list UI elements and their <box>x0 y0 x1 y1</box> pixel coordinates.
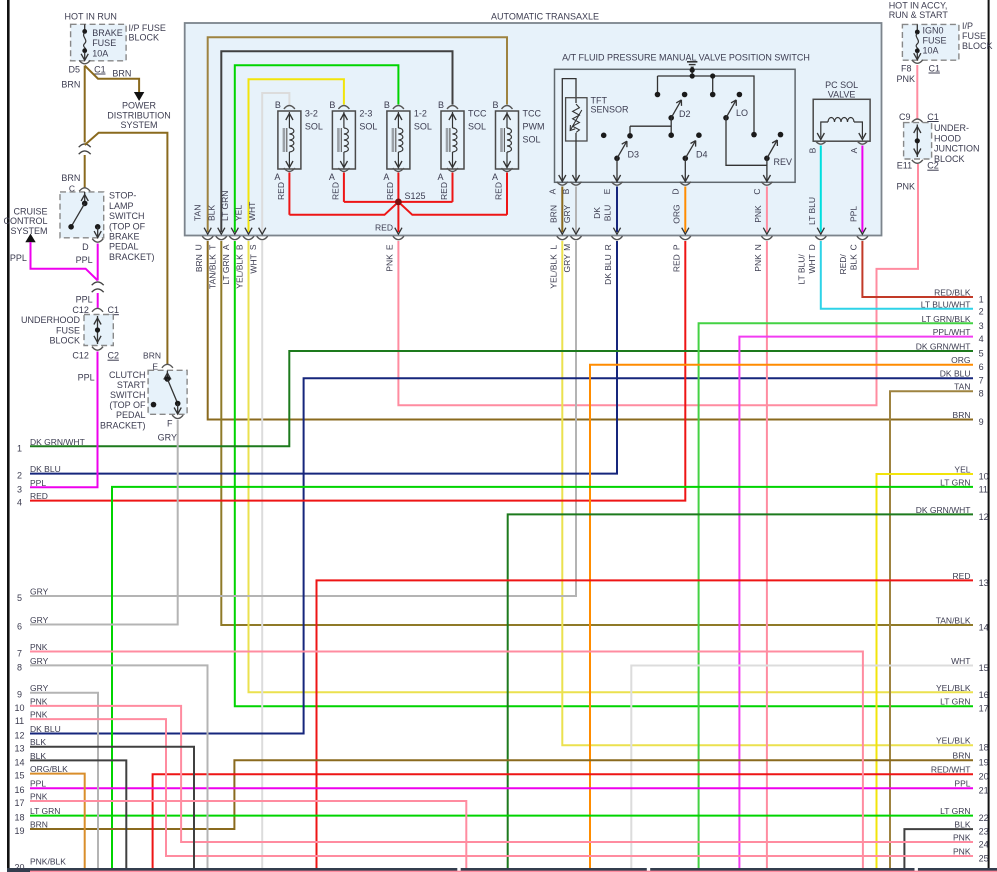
svg-text:M: M <box>562 244 572 251</box>
ground symbol <box>687 62 697 76</box>
svg-text:DK BLU: DK BLU <box>940 369 971 379</box>
svg-text:6: 6 <box>17 622 22 632</box>
svg-text:BLK: BLK <box>954 820 970 830</box>
svg-text:18: 18 <box>14 813 24 823</box>
svg-text:20: 20 <box>979 772 989 782</box>
svg-text:C: C <box>752 188 762 194</box>
wire YEL right terminal 10 to bottom edge <box>877 474 974 868</box>
wire PPL to underhood fuse block <box>76 293 98 308</box>
svg-text:DISTRIBUTION: DISTRIBUTION <box>107 110 171 120</box>
svg-text:RED/BLK: RED/BLK <box>934 288 971 298</box>
svg-text:WHT: WHT <box>247 202 257 221</box>
svg-text:DK BLU: DK BLU <box>603 254 613 285</box>
solenoid TCC PWM SOL <box>492 100 545 182</box>
svg-text:15: 15 <box>14 771 24 781</box>
svg-text:PNK: PNK <box>896 182 915 192</box>
svg-text:17: 17 <box>979 704 989 714</box>
svg-text:PNK: PNK <box>896 74 915 84</box>
wire PPL left terminal 16 to right terminal 21 <box>30 787 973 789</box>
svg-text:SWITCH: SWITCH <box>110 390 146 400</box>
svg-text:7: 7 <box>17 649 22 659</box>
svg-text:BRN: BRN <box>61 173 80 183</box>
wire BLK left terminal 14 to bottom edge <box>30 760 126 868</box>
svg-text:A: A <box>329 172 335 182</box>
wire GRY left terminal 8 to bottom edge <box>30 665 208 868</box>
svg-text:CLUTCH: CLUTCH <box>109 370 146 380</box>
label UNDERHOOD FUSE BLOCK <box>21 315 81 346</box>
svg-text:16: 16 <box>979 690 989 700</box>
svg-text:BLK: BLK <box>30 737 46 747</box>
svg-text:14: 14 <box>14 757 24 767</box>
svg-text:TAN/BLK: TAN/BLK <box>936 616 971 626</box>
svg-text:9: 9 <box>979 417 984 427</box>
svg-text:10: 10 <box>14 703 24 713</box>
svg-text:PNK/BLK: PNK/BLK <box>30 857 66 867</box>
svg-text:RED: RED <box>30 491 48 501</box>
left terminal number labels <box>14 437 84 836</box>
wire RED/WHT right terminal 20 to bottom edge <box>153 774 973 868</box>
svg-text:A: A <box>849 147 859 153</box>
svg-text:C1: C1 <box>929 63 941 73</box>
svg-text:PNK: PNK <box>30 642 48 652</box>
svg-text:PEDAL: PEDAL <box>109 242 139 252</box>
wire BRN from brake fuse, split to power distribution <box>85 66 145 101</box>
svg-text:GRY: GRY <box>30 683 49 693</box>
svg-text:BRN: BRN <box>143 351 161 361</box>
svg-text:YEL/BLK: YEL/BLK <box>235 254 245 289</box>
wire WHT solenoid S to bottom edge <box>261 241 263 868</box>
connector C9/C1 above junction block <box>899 112 939 123</box>
svg-text:D4: D4 <box>696 150 708 160</box>
switch CLUTCH START SWITCH <box>143 351 187 415</box>
wire GRY left terminal 9 to bottom edge <box>30 693 98 868</box>
svg-text:13: 13 <box>14 744 24 754</box>
svg-text:B: B <box>235 244 245 250</box>
svg-text:REV: REV <box>774 157 793 167</box>
svg-text:YEL: YEL <box>234 205 244 221</box>
label HOT IN ACCY, RUN & START <box>889 1 949 21</box>
svg-text:5: 5 <box>17 593 22 603</box>
wire PNK/BLK left terminal 20 at page bottom <box>30 870 997 872</box>
svg-text:B: B <box>561 188 571 194</box>
svg-text:DK GRN/WHT: DK GRN/WHT <box>916 342 971 352</box>
connector F under clutch switch <box>158 415 184 443</box>
svg-text:DK GRN/WHT: DK GRN/WHT <box>916 505 971 515</box>
wire BLK left terminal 13 to bottom edge <box>30 747 194 868</box>
svg-text:11: 11 <box>979 484 988 494</box>
switch STOP-LAMP SWITCH <box>60 192 104 238</box>
svg-text:C1: C1 <box>108 305 120 315</box>
wire RED/BLK switch C to right terminal 1 <box>862 241 973 297</box>
wire LT GRN right terminal 11 to bottom edge <box>112 487 973 868</box>
svg-text:D: D <box>671 188 681 194</box>
wire PNK left terminal 11 to right terminal 25 <box>30 719 973 856</box>
svg-text:BLK: BLK <box>30 751 46 761</box>
left terminal 20 PNK/BLK label <box>14 857 66 872</box>
connector C12/C1 above underhood fuse block <box>72 305 119 315</box>
svg-text:TCC: TCC <box>523 109 542 119</box>
svg-text:BLU: BLU <box>603 205 613 222</box>
wire BRN solenoid U to right terminal 9 <box>208 241 973 420</box>
wire RED solenoid returns to splice S125 <box>276 173 507 235</box>
svg-text:A: A <box>437 172 443 182</box>
label CLUTCH START SWITCH (TOP OF PEDAL BRACKET) <box>100 370 146 431</box>
svg-text:(TOP OF: (TOP OF <box>109 221 146 231</box>
svg-text:1: 1 <box>979 295 984 305</box>
svg-text:YEL/BLK: YEL/BLK <box>549 254 559 289</box>
svg-text:GRY: GRY <box>158 433 177 443</box>
svg-text:SOL: SOL <box>468 122 486 132</box>
svg-text:4: 4 <box>979 334 984 344</box>
svg-text:PC SOL: PC SOL <box>825 80 858 90</box>
right terminal number labels <box>916 288 989 864</box>
svg-text:13: 13 <box>979 578 989 588</box>
bottom page connector bar <box>7 868 997 872</box>
wire LT GRN solenoid A to right terminal 17 <box>235 241 973 706</box>
splice S125 <box>395 191 426 205</box>
svg-text:CRUISE: CRUISE <box>13 206 47 216</box>
switch contact D4 <box>683 132 708 161</box>
wire YEL/BLK solenoid B to right terminal 16 <box>249 241 974 692</box>
svg-text:LT GRN: LT GRN <box>221 254 231 284</box>
svg-text:T: T <box>207 245 217 250</box>
svg-text:17: 17 <box>14 798 24 808</box>
svg-text:15: 15 <box>979 663 989 673</box>
svg-text:PPL: PPL <box>30 478 46 488</box>
svg-text:BRACKET): BRACKET) <box>109 252 155 262</box>
svg-text:PPL: PPL <box>954 779 970 789</box>
wire GRY switch M to left terminal 5 <box>30 241 576 596</box>
wire ORG/BLK left terminal 15 to bottom edge <box>30 774 85 868</box>
connector D under stop-lamp switch <box>76 239 104 265</box>
svg-text:TAN/BLK: TAN/BLK <box>208 254 218 289</box>
wire PNK ignition feed from solenoid E to underhood junction block <box>398 164 918 405</box>
svg-text:UNDER-: UNDER- <box>934 123 969 133</box>
svg-text:CONTROL: CONTROL <box>3 216 47 226</box>
svg-text:L: L <box>548 245 558 250</box>
svg-text:1: 1 <box>17 443 22 453</box>
wire BRN left terminal 19 to right terminal 19 <box>30 760 973 829</box>
svg-text:LAMP: LAMP <box>109 201 134 211</box>
wire WHT feed to solenoid <box>262 93 289 232</box>
svg-text:D3: D3 <box>628 150 640 160</box>
svg-text:ORG/BLK: ORG/BLK <box>30 764 68 774</box>
component box: A/T FLUID PRESSURE MANUAL VALVE POSITION SWITCH <box>555 69 796 182</box>
solenoid 3-2 SOL <box>274 100 323 182</box>
svg-text:PPL: PPL <box>76 255 93 265</box>
in-line connector on BRN <box>79 144 91 154</box>
svg-text:SOL: SOL <box>359 122 377 132</box>
svg-text:PNK: PNK <box>30 710 48 720</box>
wire TAN/BLK solenoid T to right terminal 14 <box>221 241 973 625</box>
svg-text:ORG: ORG <box>951 355 970 365</box>
svg-text:FUSE: FUSE <box>56 325 80 335</box>
svg-text:BLOCK: BLOCK <box>49 336 80 346</box>
svg-text:LT GRN: LT GRN <box>30 806 60 816</box>
svg-text:3: 3 <box>979 321 984 331</box>
wire BLK feed to solenoid <box>221 51 452 232</box>
svg-text:25: 25 <box>979 854 989 864</box>
component PC SOL VALVE <box>807 80 870 153</box>
svg-text:B: B <box>329 100 335 110</box>
svg-text:B: B <box>275 100 281 110</box>
connector C12/C2 below underhood fuse block <box>72 347 119 361</box>
wire TAN feed to solenoid <box>208 37 507 232</box>
svg-text:PEDAL: PEDAL <box>116 410 146 420</box>
svg-text:10A: 10A <box>92 48 108 58</box>
svg-text:21: 21 <box>979 786 989 796</box>
svg-text:TCC: TCC <box>468 109 487 119</box>
svg-text:RED: RED <box>439 182 449 200</box>
svg-text:U: U <box>194 244 204 250</box>
svg-text:R: R <box>603 244 613 250</box>
svg-text:DK BLU: DK BLU <box>30 464 61 474</box>
svg-text:14: 14 <box>979 623 989 633</box>
wire BLK right terminal 23 to bottom edge <box>904 829 973 868</box>
fuse block IGN0 FUSE 10A in I/P fuse block <box>902 24 959 60</box>
wire switch pivots to terminals <box>613 158 770 181</box>
svg-text:YEL/BLK: YEL/BLK <box>936 683 971 693</box>
svg-text:PNK: PNK <box>953 847 971 857</box>
svg-text:24: 24 <box>979 840 989 850</box>
svg-text:SYSTEM: SYSTEM <box>10 226 47 236</box>
svg-text:GRY: GRY <box>30 587 49 597</box>
component box: AUTOMATIC TRANSAXLE <box>185 23 882 236</box>
wire LT GRN left terminal 18 to right terminal 22 <box>30 815 973 817</box>
svg-text:19: 19 <box>979 758 989 768</box>
svg-text:RED: RED <box>953 571 971 581</box>
svg-text:START: START <box>117 380 146 390</box>
svg-text:LT GRN: LT GRN <box>940 477 970 487</box>
solenoid TCC SOL <box>437 100 487 182</box>
svg-text:C: C <box>848 244 858 250</box>
svg-text:BLK: BLK <box>206 205 216 221</box>
svg-text:BRN: BRN <box>61 80 80 90</box>
wire WHT right terminal 15 to bottom edge <box>631 666 973 869</box>
svg-text:BRN: BRN <box>194 254 204 272</box>
svg-text:BRN: BRN <box>953 751 971 761</box>
svg-text:LT BLU/: LT BLU/ <box>796 254 806 285</box>
wire TAN right terminal 8 to bottom edge <box>890 391 973 868</box>
svg-text:FUSE: FUSE <box>923 36 947 46</box>
switch contact D2 <box>668 92 690 138</box>
wire ground bus inside switch <box>655 73 757 137</box>
svg-text:DK GRN/WHT: DK GRN/WHT <box>30 437 85 447</box>
svg-text:LT GRN: LT GRN <box>940 806 970 816</box>
svg-text:RUN & START: RUN & START <box>889 10 949 20</box>
svg-text:SENSOR: SENSOR <box>591 105 630 115</box>
wire DK GRN/WHT left terminal 1 to right terminal 5 <box>30 351 973 446</box>
svg-text:GRY: GRY <box>562 205 572 224</box>
svg-text:SOL: SOL <box>523 135 541 145</box>
svg-text:I/P: I/P <box>962 21 973 31</box>
terminal A BRN from switch <box>548 182 568 235</box>
svg-text:LT GRN/BLK: LT GRN/BLK <box>922 314 971 324</box>
svg-text:C2: C2 <box>927 161 939 171</box>
svg-text:D5: D5 <box>68 64 80 74</box>
svg-text:I/P FUSE: I/P FUSE <box>129 23 166 33</box>
svg-text:RED: RED <box>375 223 393 233</box>
svg-text:3: 3 <box>17 484 22 494</box>
contact dot N (open) <box>601 133 607 139</box>
svg-text:WHT: WHT <box>807 254 817 273</box>
svg-text:RED/WHT: RED/WHT <box>931 765 971 775</box>
svg-text:BRAKE: BRAKE <box>92 28 123 38</box>
svg-text:E: E <box>384 244 394 250</box>
svg-text:WHT: WHT <box>248 254 258 273</box>
svg-text:12: 12 <box>979 512 989 522</box>
wire PNK left terminal 7 to bottom edge <box>30 652 863 869</box>
wire LT GRN/BLK right terminal 3 to bottom edge <box>699 323 973 868</box>
svg-text:PPL: PPL <box>30 779 46 789</box>
svg-text:C12: C12 <box>72 351 89 361</box>
svg-text:LO: LO <box>736 108 748 118</box>
wire RED switch P to left terminal 4 <box>30 241 685 501</box>
svg-text:S125: S125 <box>405 191 426 201</box>
label I/P FUSE BLOCK right <box>962 21 993 51</box>
svg-text:GRY: GRY <box>30 656 49 666</box>
svg-text:A: A <box>274 172 280 182</box>
svg-text:C1: C1 <box>927 112 939 122</box>
in-line connector on PPL <box>92 282 104 292</box>
svg-text:N: N <box>753 244 763 250</box>
svg-text:S: S <box>248 244 258 250</box>
wire PPL to left terminal 3 <box>30 352 98 488</box>
label STOP-LAMP SWITCH (TOP OF BRAKE PEDAL BRACKET) <box>109 191 155 262</box>
svg-text:20: 20 <box>14 863 24 872</box>
connector C1 under brake fuse <box>68 60 105 74</box>
terminal B GRY from switch <box>561 182 581 235</box>
svg-text:BRN: BRN <box>30 820 48 830</box>
svg-text:BLOCK: BLOCK <box>962 41 993 51</box>
svg-text:GRY: GRY <box>30 615 49 625</box>
svg-text:BRAKE: BRAKE <box>109 232 140 242</box>
svg-text:PNK: PNK <box>30 696 48 706</box>
wire PNK left terminal 17 to bottom edge <box>30 801 466 868</box>
svg-text:LT GRN: LT GRN <box>220 191 230 221</box>
wire DK GRN/WHT right terminal 12 to bottom edge <box>508 514 973 868</box>
svg-text:RED: RED <box>494 182 504 200</box>
svg-text:F: F <box>167 418 173 428</box>
svg-text:SWITCH: SWITCH <box>109 211 145 221</box>
connector C1 under IGN0 fuse <box>896 60 940 84</box>
svg-text:PPL: PPL <box>849 206 859 222</box>
wire DK BLU switch R joining DK BLU net <box>30 241 617 474</box>
svg-text:C9: C9 <box>899 112 911 122</box>
svg-text:HOT IN ACCY,: HOT IN ACCY, <box>889 1 948 11</box>
svg-text:2: 2 <box>979 306 984 316</box>
wire PNK switch N to bottom edge <box>766 241 768 868</box>
svg-text:TAN: TAN <box>954 382 970 392</box>
svg-text:LT BLU/WHT: LT BLU/WHT <box>921 299 971 309</box>
wire GRY clutch switch to left terminal 6 <box>30 420 178 625</box>
wire YEL feed to solenoid <box>249 79 344 232</box>
label POWER DISTRIBUTION SYSTEM <box>107 101 171 130</box>
svg-text:8: 8 <box>979 389 984 399</box>
svg-text:F8: F8 <box>901 63 912 73</box>
svg-text:PNK: PNK <box>753 205 763 223</box>
svg-text:B: B <box>807 147 817 153</box>
svg-text:RED/: RED/ <box>838 254 848 275</box>
svg-text:BRN: BRN <box>953 410 971 420</box>
svg-text:PNK: PNK <box>753 254 763 272</box>
svg-text:BLOCK: BLOCK <box>129 33 160 43</box>
svg-text:19: 19 <box>14 826 24 836</box>
svg-text:STOP-: STOP- <box>109 191 136 201</box>
svg-text:D: D <box>807 244 817 250</box>
svg-text:22: 22 <box>979 813 989 823</box>
svg-text:SYSTEM: SYSTEM <box>120 120 157 130</box>
svg-text:VALVE: VALVE <box>828 90 856 100</box>
svg-text:RED: RED <box>672 254 682 272</box>
svg-text:9: 9 <box>17 690 22 700</box>
wire PNK left terminal 10 to right terminal 24 <box>30 706 973 842</box>
svg-text:12: 12 <box>14 731 24 741</box>
svg-text:B: B <box>492 100 498 110</box>
svg-text:A: A <box>383 172 389 182</box>
wire BRN down to stop lamp switch with splice break <box>61 66 84 143</box>
svg-text:BRN: BRN <box>112 69 131 79</box>
svg-text:BLK: BLK <box>849 254 859 270</box>
wire YEL/BLK switch L to right terminal 18 <box>562 241 973 745</box>
junction block pass-through <box>904 123 932 159</box>
solenoid 2-3 SOL <box>329 100 378 182</box>
svg-text:DK BLU: DK BLU <box>30 724 61 734</box>
svg-text:POWER: POWER <box>122 101 157 111</box>
wire LT BLU/WHT switch D to right terminal 2 <box>821 241 973 309</box>
svg-text:SOL: SOL <box>305 122 323 132</box>
label I/P FUSE BLOCK <box>129 23 166 43</box>
wire LT GRN feed to solenoid <box>235 65 399 232</box>
svg-text:A: A <box>548 188 558 194</box>
wire ORG right terminal 6 to bottom edge <box>590 365 973 868</box>
svg-text:GRY: GRY <box>562 254 572 273</box>
svg-text:TAN: TAN <box>193 205 203 221</box>
svg-text:5: 5 <box>979 349 984 359</box>
svg-text:E: E <box>602 188 612 194</box>
svg-text:AUTOMATIC TRANSAXLE: AUTOMATIC TRANSAXLE <box>491 12 599 22</box>
svg-text:SOL: SOL <box>414 122 432 132</box>
wire BRN lower to stop-lamp C <box>61 155 90 194</box>
svg-text:7: 7 <box>979 376 984 386</box>
svg-text:18: 18 <box>979 743 989 753</box>
wire LT BLU from PC SOL B <box>807 146 824 235</box>
wire PPL cruise branch <box>31 242 98 281</box>
svg-text:WHT: WHT <box>951 656 970 666</box>
svg-text:10A: 10A <box>923 46 939 56</box>
svg-text:UNDERHOOD: UNDERHOOD <box>21 315 81 325</box>
svg-text:PPL: PPL <box>76 295 93 305</box>
svg-text:JUNCTION: JUNCTION <box>934 144 980 154</box>
svg-text:E11: E11 <box>897 161 912 171</box>
solenoid 1-2 SOL <box>383 100 432 182</box>
svg-text:16: 16 <box>14 785 24 795</box>
svg-text:LT GRN: LT GRN <box>940 697 970 707</box>
label CRUISE CONTROL SYSTEM <box>3 206 47 236</box>
svg-text:6: 6 <box>979 362 984 372</box>
terminal E DK BLU from switch <box>592 182 623 235</box>
svg-text:FUSE: FUSE <box>92 38 116 48</box>
svg-text:HOT IN RUN: HOT IN RUN <box>65 12 117 22</box>
wire PPL from stop-lamp D <box>97 244 99 281</box>
svg-text:ORG: ORG <box>672 204 682 223</box>
svg-text:C1: C1 <box>94 64 106 74</box>
svg-text:YEL: YEL <box>954 465 970 475</box>
svg-text:DK: DK <box>592 207 602 219</box>
svg-text:PPL: PPL <box>10 253 27 263</box>
svg-text:PNK: PNK <box>385 254 395 272</box>
svg-text:10: 10 <box>979 472 989 482</box>
